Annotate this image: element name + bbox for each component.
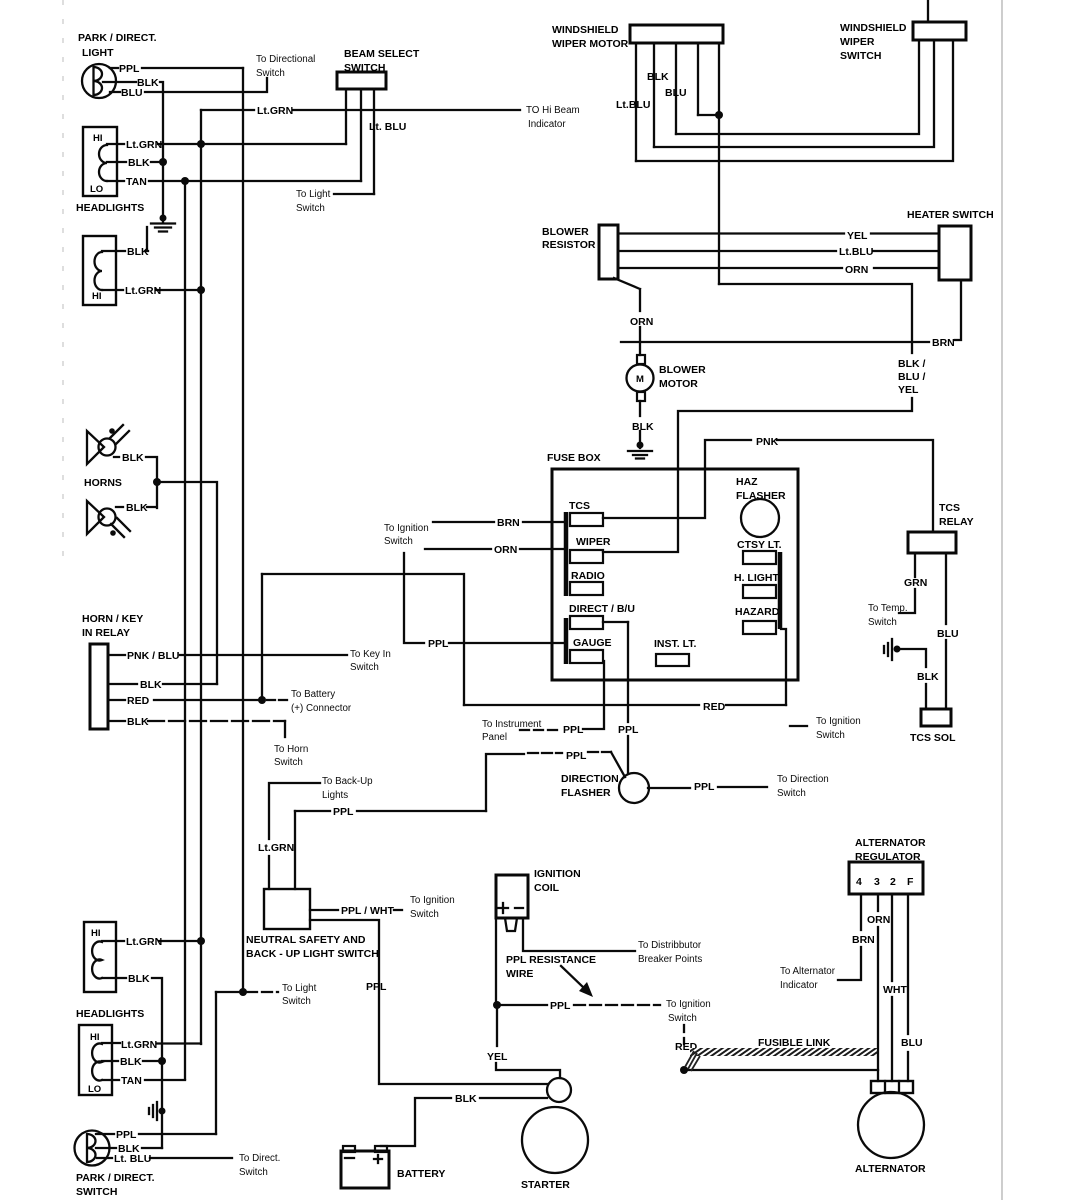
svg-text:TO Hi Beam: TO Hi Beam (526, 105, 580, 116)
svg-text:BLU: BLU (937, 628, 959, 640)
svg-text:WIPER: WIPER (840, 36, 875, 48)
svg-text:BLK: BLK (128, 973, 150, 985)
svg-text:COIL: COIL (534, 882, 560, 894)
svg-text:4: 4 (856, 876, 862, 888)
svg-text:Switch: Switch (777, 788, 806, 799)
svg-text:BRN: BRN (932, 337, 955, 349)
svg-text:BLU /: BLU / (898, 371, 925, 383)
svg-text:PARK / DIRECT.: PARK / DIRECT. (78, 32, 157, 44)
svg-text:PPL: PPL (428, 638, 449, 650)
svg-text:To Light: To Light (282, 983, 317, 994)
svg-text:HAZARD: HAZARD (735, 606, 780, 618)
svg-text:WHT: WHT (883, 984, 907, 996)
svg-text:BRN: BRN (497, 517, 520, 529)
svg-text:TAN: TAN (121, 1075, 142, 1087)
svg-text:BLK: BLK (127, 716, 149, 728)
svg-text:Lt.GRN: Lt.GRN (125, 285, 161, 297)
svg-text:DIRECT / B/U: DIRECT / B/U (569, 603, 635, 615)
svg-text:Lt. BLU: Lt. BLU (114, 1153, 151, 1165)
svg-text:To Ignition: To Ignition (410, 895, 455, 906)
svg-text:To Distribbutor: To Distribbutor (638, 940, 702, 951)
svg-text:Lt. BLU: Lt. BLU (369, 121, 406, 133)
svg-text:To Light: To Light (296, 189, 331, 200)
svg-text:PPL: PPL (116, 1129, 137, 1141)
svg-text:WIPER: WIPER (576, 536, 611, 548)
svg-text:BLOWER: BLOWER (659, 364, 706, 376)
svg-text:PPL: PPL (566, 750, 587, 762)
svg-text:BLK: BLK (126, 502, 148, 514)
svg-text:RED: RED (703, 701, 726, 713)
svg-text:BLU: BLU (901, 1037, 923, 1049)
svg-text:BLK: BLK (140, 679, 162, 691)
svg-text:HI: HI (91, 928, 101, 939)
svg-text:RED: RED (127, 695, 150, 707)
svg-text:BLK: BLK (120, 1056, 142, 1068)
svg-text:YEL: YEL (847, 230, 868, 242)
svg-text:To Back-Up: To Back-Up (322, 776, 373, 787)
svg-text:YEL: YEL (487, 1051, 508, 1063)
svg-text:PNK: PNK (756, 436, 779, 448)
svg-text:HAZ: HAZ (736, 476, 758, 488)
svg-text:Switch: Switch (350, 662, 379, 673)
svg-text:Breaker Points: Breaker Points (638, 954, 702, 965)
svg-text:WINDSHIELD: WINDSHIELD (552, 24, 619, 36)
svg-text:Lights: Lights (322, 790, 348, 801)
svg-text:FLASHER: FLASHER (736, 490, 786, 502)
svg-text:HI: HI (93, 133, 103, 144)
svg-text:HORNS: HORNS (84, 477, 122, 489)
svg-text:PPL: PPL (563, 724, 584, 736)
svg-text:NEUTRAL SAFETY AND: NEUTRAL SAFETY AND (246, 934, 366, 946)
svg-text:PNK / BLU: PNK / BLU (127, 650, 180, 662)
svg-text:RESISTOR: RESISTOR (542, 239, 596, 251)
svg-text:BACK - UP LIGHT SWITCH: BACK - UP LIGHT SWITCH (246, 948, 379, 960)
svg-text:BLK: BLK (917, 671, 939, 683)
svg-text:DIRECTION: DIRECTION (561, 773, 619, 785)
svg-text:Switch: Switch (282, 996, 311, 1007)
svg-text:Indicator: Indicator (528, 119, 566, 130)
svg-text:PPL: PPL (119, 63, 140, 75)
svg-text:2: 2 (890, 876, 896, 888)
svg-text:PARK / DIRECT.: PARK / DIRECT. (76, 1172, 155, 1184)
svg-text:RADIO: RADIO (571, 570, 605, 582)
svg-text:BLU: BLU (121, 87, 143, 99)
svg-text:IN RELAY: IN RELAY (82, 627, 130, 639)
svg-text:To Alternator: To Alternator (780, 966, 836, 977)
svg-text:PPL / WHT: PPL / WHT (341, 905, 394, 917)
svg-text:PPL: PPL (333, 806, 354, 818)
svg-text:IGNITION: IGNITION (534, 868, 581, 880)
svg-text:To Ignition: To Ignition (666, 999, 711, 1010)
svg-text:GAUGE: GAUGE (573, 637, 612, 649)
svg-text:RELAY: RELAY (939, 516, 974, 528)
svg-text:TCS: TCS (569, 500, 590, 512)
svg-text:SWITCH: SWITCH (76, 1186, 117, 1198)
svg-text:BLK: BLK (122, 452, 144, 464)
svg-text:Lt.BLU: Lt.BLU (616, 99, 650, 111)
svg-text:M: M (636, 374, 644, 385)
svg-text:Indicator: Indicator (780, 980, 818, 991)
svg-text:BLK: BLK (455, 1093, 477, 1105)
svg-text:BLK: BLK (647, 71, 669, 83)
svg-text:YEL: YEL (898, 384, 919, 396)
svg-text:Lt.GRN: Lt.GRN (257, 105, 293, 117)
svg-text:PPL: PPL (694, 781, 715, 793)
svg-text:To Ignition: To Ignition (816, 716, 861, 727)
svg-text:(+) Connector: (+) Connector (291, 703, 352, 714)
svg-text:Switch: Switch (296, 203, 325, 214)
svg-text:WIPER MOTOR: WIPER MOTOR (552, 38, 629, 50)
svg-text:To Key In: To Key In (350, 649, 391, 660)
svg-text:ORN: ORN (494, 544, 517, 556)
svg-text:ORN: ORN (630, 316, 653, 328)
svg-text:To Temp.: To Temp. (868, 603, 908, 614)
svg-text:Switch: Switch (410, 909, 439, 920)
svg-text:LO: LO (90, 184, 103, 195)
svg-text:SWITCH: SWITCH (840, 50, 881, 62)
svg-text:To Battery: To Battery (291, 689, 335, 700)
svg-text:TCS SOL: TCS SOL (910, 732, 956, 744)
svg-text:Lt.BLU: Lt.BLU (839, 246, 873, 258)
svg-text:HEADLIGHTS: HEADLIGHTS (76, 1008, 144, 1020)
svg-text:BLK /: BLK / (898, 358, 925, 370)
svg-text:STARTER: STARTER (521, 1179, 570, 1191)
svg-text:To Directional: To Directional (256, 54, 315, 65)
svg-text:PPL: PPL (618, 724, 639, 736)
svg-text:LO: LO (88, 1084, 101, 1095)
svg-text:Switch: Switch (668, 1013, 697, 1024)
svg-text:FUSIBLE LINK: FUSIBLE LINK (758, 1037, 831, 1049)
svg-text:MOTOR: MOTOR (659, 378, 698, 390)
svg-text:H. LIGHT: H. LIGHT (734, 572, 779, 584)
svg-text:Switch: Switch (256, 68, 285, 79)
svg-text:To Direction: To Direction (777, 774, 829, 785)
svg-text:HEADLIGHTS: HEADLIGHTS (76, 202, 144, 214)
svg-text:PPL RESISTANCE: PPL RESISTANCE (506, 954, 596, 966)
svg-text:TAN: TAN (126, 176, 147, 188)
svg-text:HI: HI (92, 291, 102, 302)
svg-text:BLK: BLK (127, 246, 149, 258)
svg-text:To Ignition: To Ignition (384, 523, 429, 534)
svg-text:F: F (907, 876, 914, 888)
svg-text:FUSE BOX: FUSE BOX (547, 452, 601, 464)
svg-text:BLU: BLU (665, 87, 687, 99)
svg-text:WINDSHIELD: WINDSHIELD (840, 22, 907, 34)
svg-text:BEAM SELECT: BEAM SELECT (344, 48, 420, 60)
svg-text:WIRE: WIRE (506, 968, 533, 980)
svg-text:Lt.GRN: Lt.GRN (258, 842, 294, 854)
svg-text:CTSY LT.: CTSY LT. (737, 539, 782, 551)
svg-text:BLK: BLK (128, 157, 150, 169)
svg-text:To Horn: To Horn (274, 744, 308, 755)
svg-text:TCS: TCS (939, 502, 960, 514)
svg-text:ORN: ORN (867, 914, 890, 926)
svg-text:HI: HI (90, 1032, 100, 1043)
svg-text:Panel: Panel (482, 732, 507, 743)
svg-text:Lt.GRN: Lt.GRN (126, 936, 162, 948)
svg-text:Switch: Switch (384, 536, 413, 547)
svg-text:3: 3 (874, 876, 880, 888)
svg-text:GRN: GRN (904, 577, 927, 589)
svg-text:PPL: PPL (550, 1000, 571, 1012)
svg-text:HEATER SWITCH: HEATER SWITCH (907, 209, 994, 221)
svg-text:BATTERY: BATTERY (397, 1168, 445, 1180)
svg-text:To Direct.: To Direct. (239, 1153, 280, 1164)
svg-text:Switch: Switch (868, 617, 897, 628)
svg-text:ALTERNATOR: ALTERNATOR (855, 1163, 926, 1175)
svg-text:ALTERNATOR: ALTERNATOR (855, 837, 926, 849)
svg-text:PPL: PPL (366, 981, 387, 993)
svg-text:BRN: BRN (852, 934, 875, 946)
svg-text:LIGHT: LIGHT (82, 47, 114, 59)
svg-text:BLK: BLK (632, 421, 654, 433)
svg-text:To Instrument: To Instrument (482, 719, 542, 730)
svg-text:FLASHER: FLASHER (561, 787, 611, 799)
svg-text:HORN / KEY: HORN / KEY (82, 613, 143, 625)
svg-text:Switch: Switch (239, 1167, 268, 1178)
svg-text:ORN: ORN (845, 264, 868, 276)
svg-text:Switch: Switch (816, 730, 845, 741)
svg-text:INST. LT.: INST. LT. (654, 638, 696, 650)
svg-text:Lt.GRN: Lt.GRN (126, 139, 162, 151)
svg-text:BLOWER: BLOWER (542, 226, 589, 238)
svg-text:Switch: Switch (274, 757, 303, 768)
svg-text:Lt.GRN: Lt.GRN (121, 1039, 157, 1051)
